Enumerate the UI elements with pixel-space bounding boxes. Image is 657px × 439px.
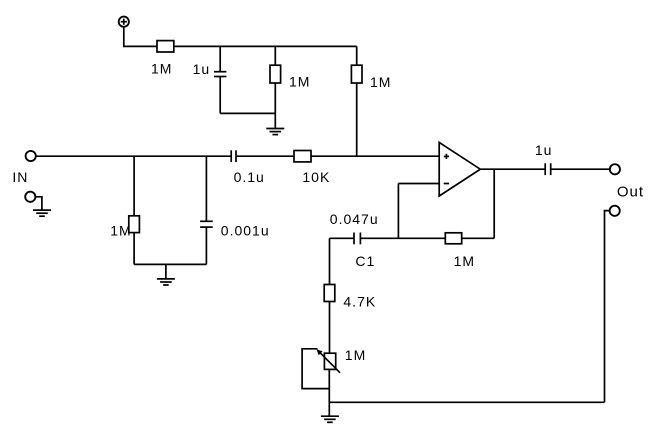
capacitor 1u (output coupling) [545,163,551,175]
input ground terminal [25,192,42,210]
svg-text:1M: 1M [370,74,391,90]
svg-text:IN: IN [12,169,28,185]
svg-text:1M: 1M [454,253,475,269]
svg-text:1M: 1M [151,61,172,77]
feedback: wire output node down [493,169,495,238]
svg-text:1M: 1M [110,223,131,239]
svg-text:1u: 1u [193,61,211,77]
power supply positive terminal [119,17,129,27]
svg-text:C1: C1 [355,253,375,269]
resistor 4.7K [324,285,335,354]
svg-text:1M: 1M [289,73,310,89]
wire op-amp output [480,168,544,170]
op-amp U1 [439,142,480,196]
wire 0.1u to 10K [236,155,294,157]
resistor 1M (input shunt) [129,156,140,264]
capacitor 0.001u (input shunt) [200,156,213,264]
svg-text:0.1u: 0.1u [234,169,265,185]
resistor 1M (bias divider upper-left) [270,46,281,128]
svg-text:4.7K: 4.7K [343,293,376,309]
potentiometer 1M (rheostat) [317,349,341,373]
wire - input down to feedback node [397,184,399,239]
svg-text:0.047u: 0.047u [330,211,379,227]
wiper return wire [302,349,329,389]
output ground terminal [605,206,620,403]
input terminal IN [26,151,36,161]
capacitor C1 0.047u [330,233,399,245]
resistor 10K (series signal) [294,151,311,162]
wire R1 to top rail [174,45,357,47]
capacitor 1u (supply filter) [214,46,226,113]
wire shunt network bottom [134,263,206,265]
wire op-amp - input [398,183,439,185]
resistor 1M (feedback) [398,233,494,244]
ground (main) [321,416,339,422]
wire 10K to op-amp + input [311,155,439,157]
wire cap bottom to resistor bottom [220,112,275,114]
output terminal Out [610,164,620,174]
wire bottom return to output ground [329,401,604,403]
svg-text:1M: 1M [345,347,366,363]
resistor 1M (supply series) [157,41,174,52]
ground (input terminal) [33,210,51,216]
wire IN to 0.1u cap [36,155,231,157]
wire pot bottom down [328,369,330,402]
svg-text:0.001u: 0.001u [221,223,270,239]
svg-text:Out: Out [617,184,644,201]
wire to ground stub [328,402,330,416]
resistor 1M (bias feed to signal line) [351,46,362,156]
svg-text:1u: 1u [535,142,553,158]
wire C1 down to 4.7K [329,238,331,284]
wire 1u to Out terminal [551,168,609,170]
ground (bias divider) [266,129,284,135]
capacitor 0.1u (signal coupling) [231,150,236,162]
ground (input network) [157,279,175,285]
svg-text:10K: 10K [302,169,330,185]
wire from supply down and right to R1 [124,27,157,46]
wire to ground stub [165,264,167,279]
